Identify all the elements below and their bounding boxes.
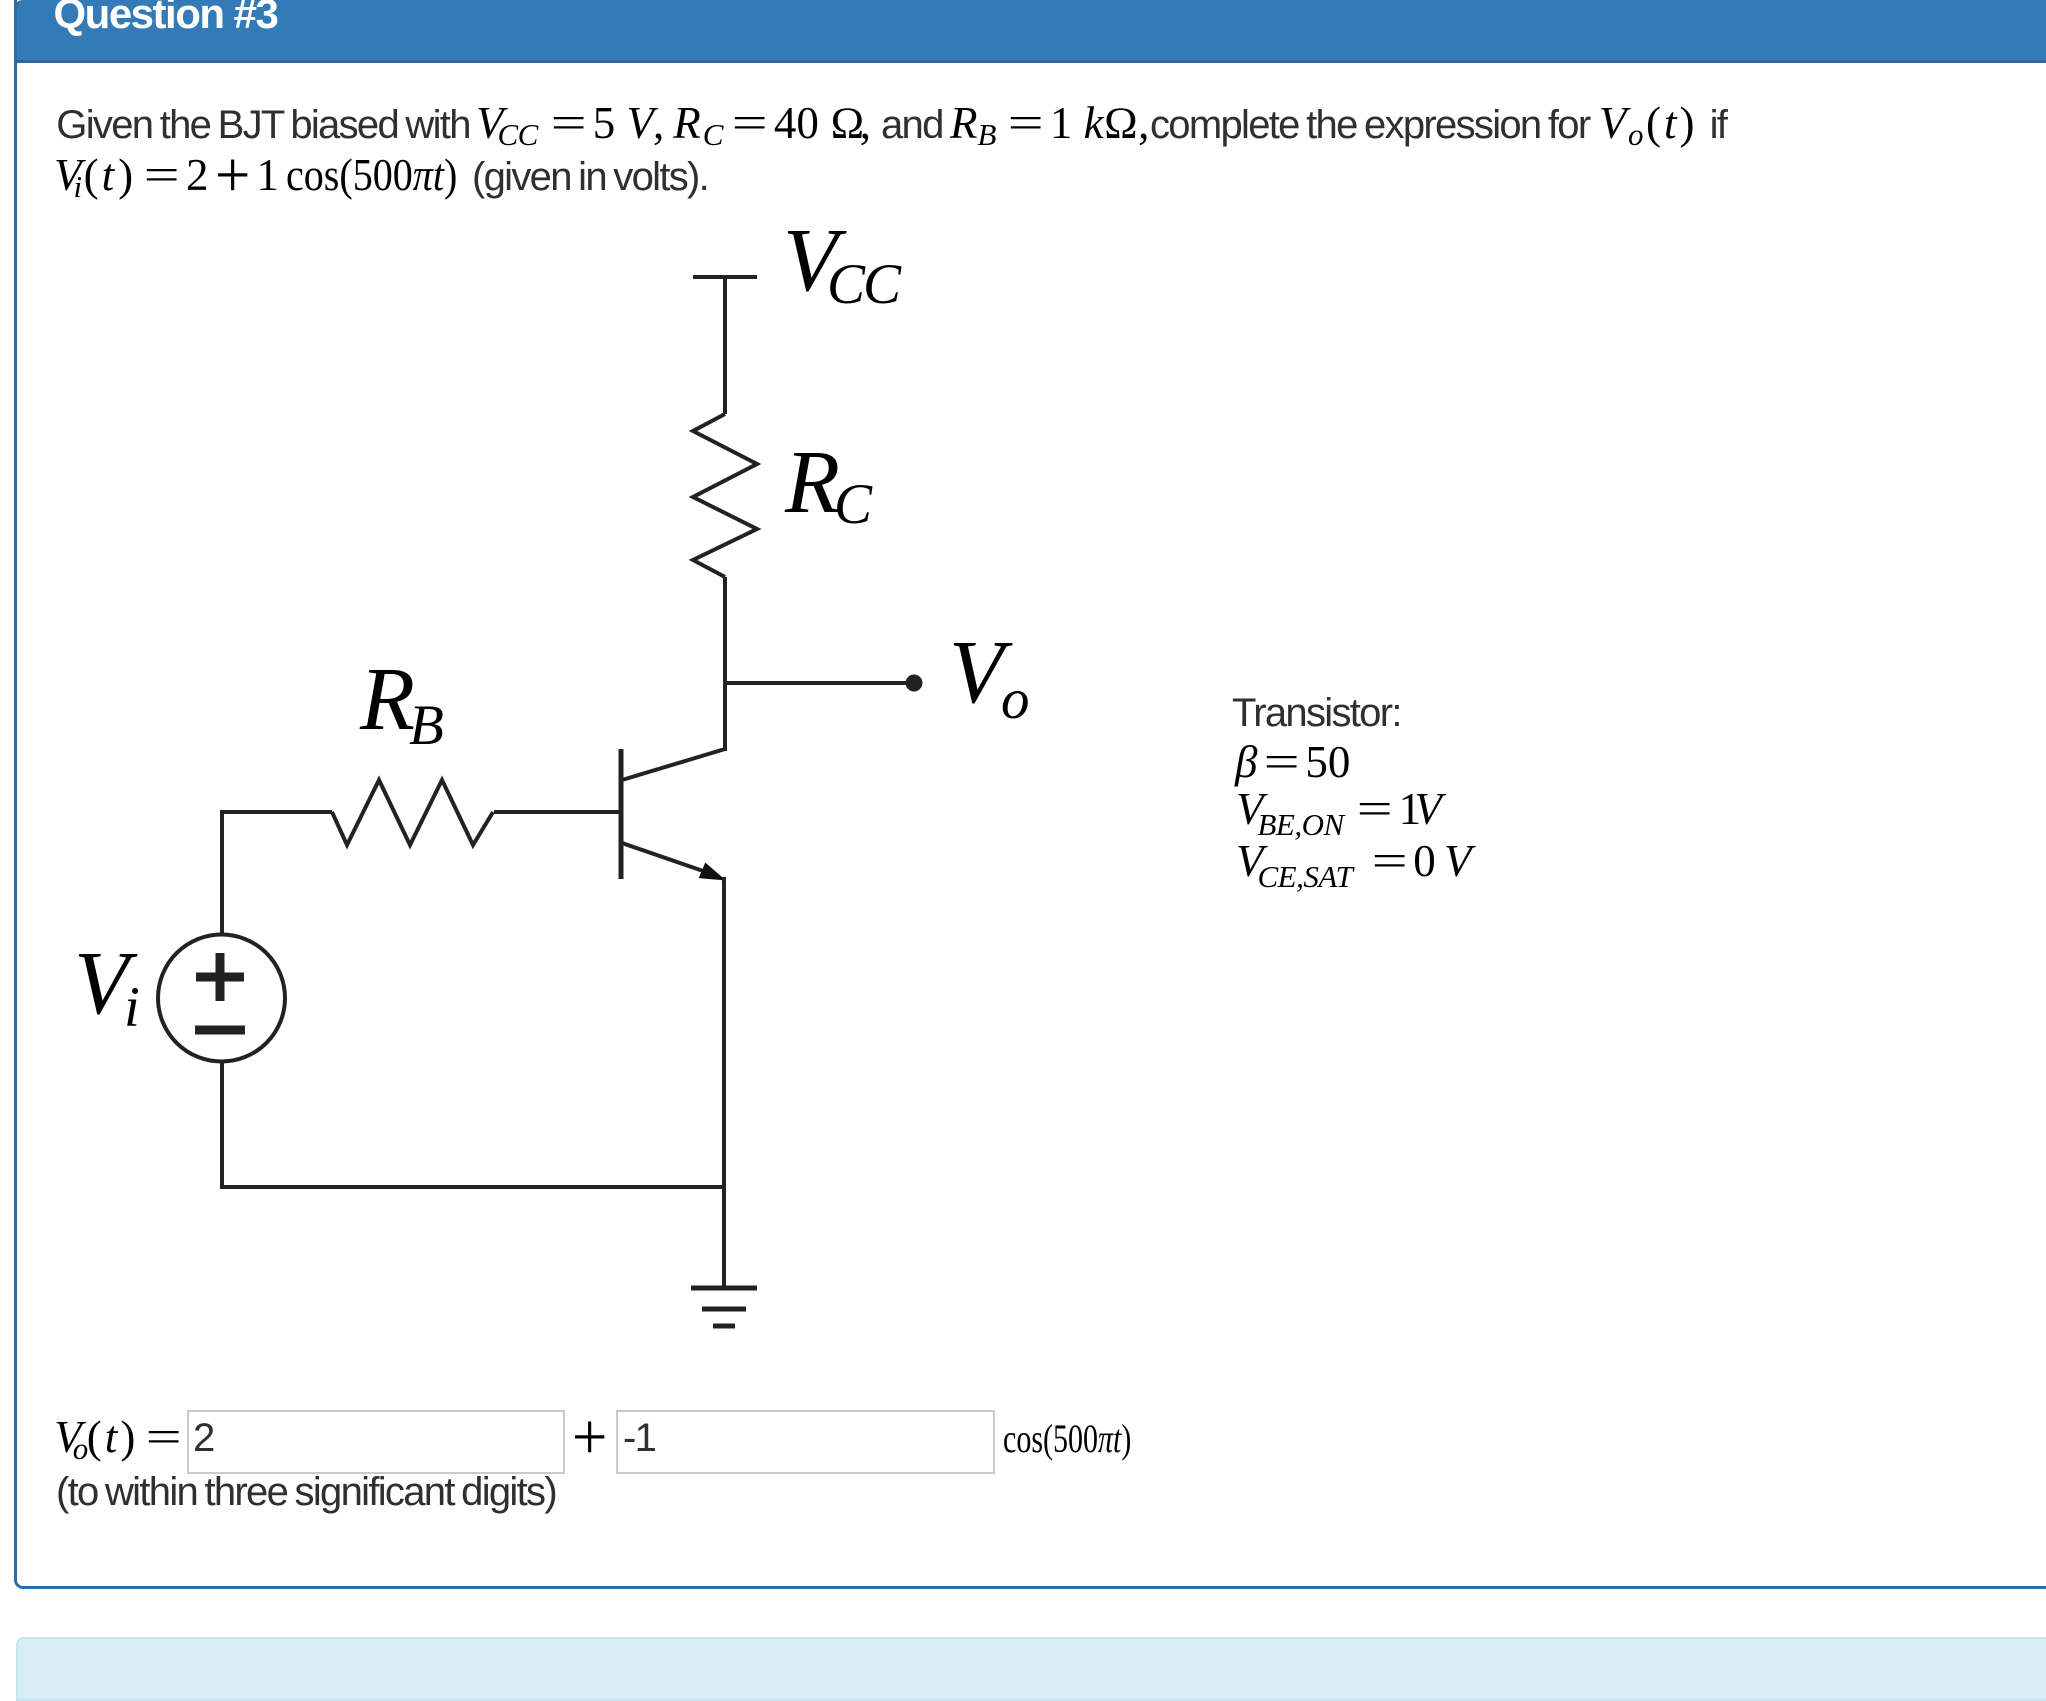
question text line 2 — [54, 153, 479, 198]
wire corner down to source — [220, 810, 224, 933]
svg-text:CC: CC — [827, 253, 902, 316]
svg-text:B: B — [409, 694, 444, 757]
question text line 1 — [56, 105, 469, 145]
node Vo dot — [906, 675, 923, 692]
svg-text:i: i — [124, 976, 140, 1039]
V_CE,SAT = 0 V — [1236, 839, 1472, 884]
transistor Q1 base bar — [619, 749, 624, 879]
panel heading bar — [14, 0, 2046, 63]
transistor Q1 emitter lead — [622, 843, 706, 872]
transistor Q1 emitter arrowhead — [699, 863, 726, 881]
label VCC — [783, 211, 902, 316]
wire base — [494, 810, 621, 814]
input box 1 — [187, 1410, 565, 1474]
resistor RC — [693, 414, 757, 577]
beta = 50 — [1235, 740, 1350, 785]
bottom rail wire — [220, 1185, 724, 1189]
source minus sign — [195, 1026, 245, 1035]
source Vi circle — [158, 935, 285, 1062]
wire source to bottom rail — [220, 1062, 224, 1185]
label RB — [359, 650, 444, 757]
power rail VCC bar — [693, 275, 757, 279]
transistor parameters block — [1232, 693, 1401, 733]
label Vo — [949, 623, 1030, 731]
wire RC to collector — [723, 577, 727, 751]
svg-text:R: R — [359, 650, 415, 749]
answer expression V_o(t) = [2] + [-1] cos(500pi t) — [54, 1415, 176, 1460]
wire VCC to RC — [723, 277, 727, 414]
plus sign — [577, 1415, 602, 1460]
label RC — [784, 433, 873, 536]
hint line — [56, 1472, 556, 1512]
label Vi — [74, 934, 140, 1039]
ground symbol — [691, 1286, 757, 1291]
emitter wire down to ground — [722, 877, 726, 1286]
svg-text:C: C — [834, 473, 873, 536]
cos(500 pi t) — [1003, 1419, 1174, 1459]
wire to node Vo — [725, 681, 906, 685]
wire RB to corner — [222, 810, 332, 814]
svg-text:o: o — [1001, 668, 1030, 731]
heading title — [54, 0, 278, 35]
resistor RB — [332, 780, 493, 845]
svg-text:R: R — [784, 433, 840, 532]
input box 2 — [616, 1410, 995, 1474]
next panel (info) top edge — [16, 1637, 2046, 1701]
source plus sign — [196, 953, 244, 1001]
transistor Q1 collector lead — [622, 749, 725, 780]
V_BE,ON = 1 V — [1236, 787, 1442, 832]
